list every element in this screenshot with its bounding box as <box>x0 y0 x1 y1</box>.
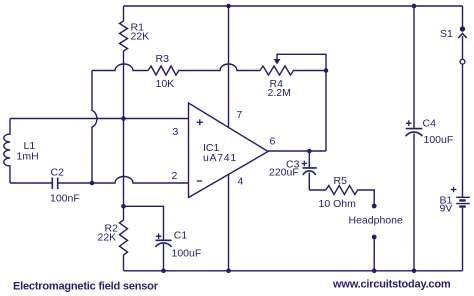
wire pin4 to ground rail <box>228 175 230 271</box>
plus mark C1 <box>156 233 162 239</box>
wire feedback row with hop over R1 line <box>92 64 148 71</box>
wire C3 to R5 <box>309 189 326 191</box>
label B1 9V <box>440 195 453 215</box>
svg-text:7: 7 <box>237 109 243 121</box>
wire node A down to R2/C1 node <box>123 119 125 207</box>
wire bottom ground rail <box>124 270 463 272</box>
svg-text:www.circuitstoday.com: www.circuitstoday.com <box>332 279 451 291</box>
svg-text:Headphone: Headphone <box>349 215 403 227</box>
svg-text:uA741: uA741 <box>203 152 237 164</box>
svg-text:C2: C2 <box>51 167 65 179</box>
svg-text:100nF: 100nF <box>50 193 80 205</box>
switch S1 <box>458 27 467 64</box>
op-amp minus input mark <box>197 180 202 182</box>
resistor R2 <box>120 206 128 270</box>
node C1/ground junction <box>161 269 166 274</box>
capacitor C3 <box>303 151 317 190</box>
svg-text:2: 2 <box>172 170 178 182</box>
svg-text:S1: S1 <box>440 28 453 40</box>
svg-text:3: 3 <box>173 126 179 138</box>
label IC1 uA741 <box>203 142 237 164</box>
pin number 6 <box>270 136 276 148</box>
wire pin2 row right with hop over R1/R2 line <box>58 177 189 184</box>
node A (pin3 bias node) <box>121 116 126 121</box>
wire R3 to R4 with hop over pin7 line <box>178 64 260 71</box>
svg-text:R3: R3 <box>156 53 170 65</box>
wire inverting branch vertical with hop over pin3 wire <box>92 71 97 184</box>
wire pin2 row left (L1 bottom to C2) <box>10 182 52 184</box>
svg-text:C4: C4 <box>423 118 437 130</box>
wire output pin6 <box>268 150 326 152</box>
label C2 100nF <box>50 167 80 205</box>
label L1 1mH <box>17 140 39 163</box>
svg-text:9V: 9V <box>440 203 453 215</box>
plus mark C3 <box>302 161 307 166</box>
wire headphone terminal to ground rail <box>373 237 375 271</box>
svg-text:100uF: 100uF <box>424 134 454 146</box>
node R2/C1 junction <box>121 204 126 209</box>
wire right rail top <box>462 6 464 27</box>
capacitor C2 <box>52 178 57 190</box>
plus mark B1 <box>451 187 457 193</box>
label S1 <box>440 28 453 40</box>
trimmer arrow of R4 <box>274 54 326 70</box>
svg-text:2.2M: 2.2M <box>268 87 291 99</box>
resistor R3 <box>148 66 179 75</box>
wire C4 branch top <box>413 6 415 128</box>
wire right rail bottom <box>462 208 464 271</box>
node pin4/ground junction <box>226 269 231 274</box>
pin number 3 <box>173 126 179 138</box>
svg-text:R5: R5 <box>334 175 348 187</box>
node R4/feedback junction <box>324 68 329 73</box>
label R2 22K <box>98 223 119 244</box>
label R1 22K <box>131 22 150 43</box>
node top rail / pin7 junction <box>226 4 231 9</box>
wire pin7 to top rail <box>228 6 230 127</box>
svg-text:10 Ohm: 10 Ohm <box>319 198 357 210</box>
label Headphone <box>349 215 403 227</box>
op-amp plus input mark <box>197 119 203 125</box>
inductor L1 <box>4 119 10 184</box>
svg-text:220uF: 220uF <box>269 167 299 179</box>
title Electromagnetic field sensor <box>13 281 159 293</box>
svg-text:4: 4 <box>238 176 244 188</box>
resistor R5 <box>326 186 358 195</box>
label C3 220uF <box>269 159 300 179</box>
capacitor C4 <box>406 129 423 271</box>
svg-text:C1: C1 <box>174 230 188 242</box>
label R4 2.2M <box>268 78 291 99</box>
wire feedback down to output <box>325 71 327 152</box>
label C1 100uF <box>172 230 202 260</box>
node C2/feedback junction <box>90 181 95 186</box>
wire R1 bottom to node A <box>123 51 125 119</box>
battery B1 <box>456 197 470 206</box>
node top rail / C4 branch junction <box>412 4 417 9</box>
node C4/ground junction <box>412 269 417 274</box>
op-amp U1 triangle <box>189 103 269 198</box>
capacitor C1 <box>156 240 172 247</box>
svg-text:100uF: 100uF <box>172 248 202 260</box>
label C4 100uF <box>423 118 454 147</box>
svg-text:6: 6 <box>270 136 276 148</box>
pin number 4 <box>238 176 244 188</box>
watermark www.circuitstoday.com <box>332 279 451 291</box>
pin number 7 <box>237 109 243 121</box>
wire right rail middle <box>462 64 464 197</box>
node headphone/ground junction <box>372 269 377 274</box>
resistor R4 (trimmer) <box>260 66 293 75</box>
wire R2 node to C1 <box>124 206 164 239</box>
wire R4 right to feedback node <box>293 70 326 72</box>
node output/C3 junction <box>307 149 312 154</box>
svg-text:10K: 10K <box>156 78 175 90</box>
pin number 2 <box>172 170 178 182</box>
wire pin3 row (L1 top to op-amp +) <box>10 118 189 120</box>
svg-text:Electromagnetic field sensor: Electromagnetic field sensor <box>13 281 159 293</box>
label R5 10 Ohm <box>319 175 357 210</box>
label R3 10K <box>156 53 175 90</box>
wire C1 to ground rail <box>163 244 165 271</box>
headphone terminal bottom <box>372 235 377 240</box>
resistor R1 <box>120 6 128 51</box>
plus mark C4 <box>406 120 412 126</box>
wire top supply rail <box>124 5 463 7</box>
headphone terminal top <box>372 204 377 209</box>
wire R5 to headphone terminal <box>357 190 374 204</box>
svg-text:22K: 22K <box>98 232 117 244</box>
svg-text:22K: 22K <box>131 31 150 43</box>
svg-text:1mH: 1mH <box>17 151 39 163</box>
